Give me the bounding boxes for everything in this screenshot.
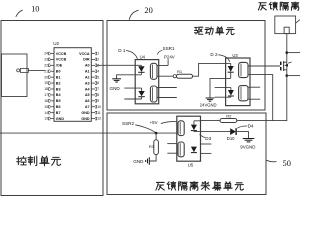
leader from D2 to U3 LED	[218, 55, 230, 62]
svg-text:GND: GND	[81, 111, 90, 115]
U4 LED D1 (upper)	[138, 65, 144, 74]
svg-text:23: 23	[44, 58, 48, 62]
U2 left pin B3 (pin 18)	[44, 87, 60, 91]
U4 output switch 1 (pill)	[150, 63, 157, 79]
svg-text:VCCA: VCCA	[79, 52, 90, 56]
resistor R1	[177, 74, 193, 78]
U2 left pin B6 (pin 15)	[44, 105, 60, 109]
wire R1 to U3 LED anode	[193, 63, 231, 76]
feedback isolation sampling unit box (50)	[107, 113, 266, 195]
svg-text:B2: B2	[56, 81, 61, 85]
svg-text:2: 2	[97, 58, 99, 62]
node dot drain junction	[285, 51, 288, 54]
svg-text:17: 17	[44, 93, 48, 97]
svg-text:5: 5	[97, 75, 99, 79]
svg-text:50: 50	[283, 159, 291, 168]
wire junction down to R3	[155, 133, 157, 140]
svg-text:13: 13	[44, 117, 48, 121]
leader line for label 10	[16, 10, 23, 17]
leader line for label 20	[129, 10, 138, 20]
svg-text:9VGND: 9VGND	[240, 144, 255, 149]
P24V supply tick	[167, 59, 169, 65]
resistor R3	[154, 140, 159, 155]
U2 left pin B4 (pin 17)	[44, 93, 61, 97]
svg-text:20: 20	[44, 75, 48, 79]
svg-text:10: 10	[97, 105, 101, 109]
svg-text:B5: B5	[56, 99, 61, 103]
wire +5V to U5 input	[161, 122, 177, 124]
svg-text:VCCB: VCCB	[56, 58, 67, 62]
wire R3 to GND (rotated)	[149, 155, 156, 161]
U2 right pin A6 (pin 9)	[85, 99, 99, 103]
svg-text:11: 11	[97, 111, 101, 115]
U2 right pin A2 (pin 5)	[85, 75, 99, 79]
U2 right pin A5 (pin 8)	[85, 93, 99, 97]
connector J1 circle-and-pin symbol	[17, 69, 20, 72]
svg-text:D10: D10	[227, 136, 235, 141]
svg-text:GND: GND	[133, 159, 144, 164]
leader line for label 50	[266, 160, 276, 162]
wire U5 LED anode up to R2 wire	[194, 120, 220, 122]
wire U4 LED1 cathode to GND	[117, 75, 142, 79]
svg-text:DIR: DIR	[83, 58, 90, 62]
svg-text:15: 15	[44, 105, 48, 109]
U2 right pin VCCA (pin 1)	[79, 52, 99, 56]
U3 LED1 (upper)	[228, 63, 234, 78]
U2 left pin VCCB (pin 23)	[44, 58, 66, 62]
wire U2.A0 to SSR1 LED1 anode	[97, 64, 142, 66]
transistor Q1 (MOSFET)	[280, 61, 292, 76]
svg-text:B0: B0	[56, 70, 61, 74]
svg-text:14: 14	[44, 111, 48, 115]
svg-text:22: 22	[44, 63, 48, 67]
svg-text:D 2: D 2	[210, 52, 218, 57]
junction circle at R1 left	[173, 75, 176, 78]
output connector box (top right)	[275, 16, 296, 34]
svg-text:D3: D3	[205, 136, 211, 141]
U2 right pin A3 (pin 6)	[85, 81, 99, 85]
svg-text:SSR1: SSR1	[163, 46, 175, 51]
svg-text:+5V: +5V	[150, 120, 158, 125]
svg-text:20: 20	[144, 6, 152, 15]
wire U3 LED1 cathode to 24VGND	[210, 78, 231, 97]
svg-text:1: 1	[97, 52, 99, 56]
U2 left pin B5 (pin 16)	[44, 99, 60, 103]
svg-text:R1: R1	[177, 69, 183, 74]
U2 right pin GND (pin 12)	[81, 117, 101, 121]
diode D10	[230, 128, 236, 135]
svg-text:19: 19	[44, 81, 48, 85]
U2 left pin B0 (pin 21)	[44, 69, 60, 73]
svg-text:9: 9	[97, 99, 99, 103]
node dot source junction	[285, 74, 288, 77]
U5 LED D3 lower with stubs	[167, 144, 211, 154]
U2 left pin VCCB (pin 24)	[44, 52, 66, 56]
svg-text:B6: B6	[56, 105, 61, 109]
svg-text:U3: U3	[232, 53, 238, 58]
wire U3 out lower to feedback node	[248, 75, 273, 121]
svg-text:P24V: P24V	[164, 54, 175, 59]
leader from D3 to U5 LED	[200, 134, 206, 137]
svg-text:GND: GND	[56, 117, 65, 121]
connector J1 small box in control unit	[2, 54, 28, 97]
leader from SSR1 to U4	[157, 51, 162, 55]
wire U5 LED cathode to D10	[194, 131, 231, 133]
SSR relay U4 body	[135, 60, 159, 104]
svg-text:A3: A3	[85, 81, 90, 85]
U2 left pin GND (pin 13)	[44, 117, 64, 121]
wire U3 out to MOSFET gate	[248, 65, 280, 67]
svg-text:16: 16	[44, 99, 48, 103]
U5 LED D3 (upper)	[191, 121, 197, 132]
svg-text:R2: R2	[226, 114, 232, 119]
U2 right pin A4 (pin 7)	[85, 87, 99, 91]
ground symbol GND (drive unit input side)	[112, 79, 121, 82]
diagonal leader at connector corner	[296, 20, 300, 24]
wire source junction to right edge	[287, 75, 300, 77]
title text 控制单元 (control unit)	[17, 157, 27, 165]
U4 LED2 (lower) with stub wires	[124, 88, 145, 99]
wire U4 out1 top to P24V	[157, 65, 168, 67]
control unit box (10)	[1, 21, 103, 196]
node dot SSR2/R3 junction	[155, 132, 158, 135]
svg-text:GND: GND	[110, 86, 121, 91]
resistor R2	[220, 119, 237, 123]
optocoupler U3 body	[226, 58, 250, 106]
U3 lower output stub wires	[248, 86, 260, 88]
wire U4 out1 bottom to R1	[157, 75, 173, 77]
svg-text:8: 8	[97, 93, 99, 97]
U2 right pin A7 (pin 10)	[85, 105, 101, 109]
svg-text:D4: D4	[248, 124, 254, 129]
optocoupler U5 body (sampling)	[177, 116, 201, 161]
svg-text:B3: B3	[56, 87, 61, 91]
U2 left pin B1 (pin 20)	[44, 75, 60, 79]
ground symbol 9VGND	[243, 139, 255, 142]
U2 right pin GND (pin 11)	[81, 111, 101, 115]
svg-text:A6: A6	[85, 99, 90, 103]
svg-text:7: 7	[97, 87, 99, 91]
IC U2 (level translator) body	[54, 48, 91, 122]
U2 right pin A0 (pin 3)	[85, 63, 99, 67]
drive unit box (20)	[107, 21, 265, 111]
svg-text:VCCB: VCCB	[56, 52, 67, 56]
svg-text:12: 12	[97, 117, 101, 121]
svg-text:/OE: /OE	[56, 64, 63, 68]
U2 right pin A1 (pin 4)	[85, 69, 99, 73]
wire from connector J1 to U2 pin B0	[28, 69, 45, 71]
svg-text:6: 6	[97, 81, 99, 85]
SSR2 signal wire from control unit to U5	[0, 132, 177, 134]
svg-text:R3: R3	[149, 144, 155, 149]
svg-text:A7: A7	[85, 105, 90, 109]
top-right text 反馈隔离 (feedback isolation, cut off)	[258, 3, 266, 10]
U2 left pin /OE (pin 22)	[44, 63, 62, 67]
U4 output switch 2 (pill)	[150, 86, 157, 102]
svg-text:D 1: D 1	[118, 48, 126, 53]
U3 LED2 (lower) with stub wires	[215, 88, 234, 98]
U3 output transistor 2 (pill)	[239, 86, 248, 101]
leader from D4 to D10	[237, 126, 247, 128]
svg-text:A0: A0	[85, 64, 90, 68]
U3 output transistor 1 (pill)	[239, 62, 248, 77]
wire drain junction to right edge	[287, 52, 300, 54]
leader from SSR2 to junction	[135, 125, 155, 133]
svg-text:B1: B1	[56, 75, 61, 79]
wire D10 cathode to 9VGND	[236, 132, 249, 139]
svg-text:SSR2: SSR2	[122, 121, 134, 126]
wire connector pin down to MOSFET drain rail	[286, 34, 288, 62]
svg-text:18: 18	[44, 87, 48, 91]
svg-text:24: 24	[44, 52, 48, 56]
svg-text:U5: U5	[188, 162, 194, 167]
svg-text:24VGND: 24VGND	[200, 103, 217, 108]
U2 left pin B2 (pin 19)	[44, 81, 60, 85]
svg-text:U2: U2	[53, 41, 59, 46]
title text 驱动单元 (drive unit)	[194, 27, 202, 34]
svg-text:A2: A2	[85, 75, 90, 79]
svg-text:21: 21	[44, 69, 48, 73]
U4 lower output stub wires	[157, 87, 177, 89]
ground symbol GND (rotated left)	[146, 157, 150, 165]
ground symbol 24VGND	[206, 98, 215, 101]
title text 反馈隔离采集单元 (feedback isolation sampling unit)	[156, 182, 164, 190]
svg-text:U4: U4	[140, 54, 146, 59]
U2 left pin B7 (pin 14)	[44, 111, 60, 115]
U5 input transistor 2 (pill)	[178, 142, 184, 157]
connector pin rect	[284, 27, 289, 33]
svg-text:A1: A1	[85, 70, 90, 74]
svg-text:GND: GND	[81, 117, 90, 121]
leader from D1 to LED	[126, 51, 138, 59]
svg-text:10: 10	[31, 4, 39, 13]
svg-text:A5: A5	[85, 93, 90, 97]
U5 input transistor 1 (pill)	[178, 121, 184, 136]
svg-text:B7: B7	[56, 111, 61, 115]
U2 right pin DIR (pin 2)	[83, 58, 99, 62]
svg-text:4: 4	[97, 69, 99, 73]
feedback wire from source down and left to R2	[237, 76, 287, 121]
